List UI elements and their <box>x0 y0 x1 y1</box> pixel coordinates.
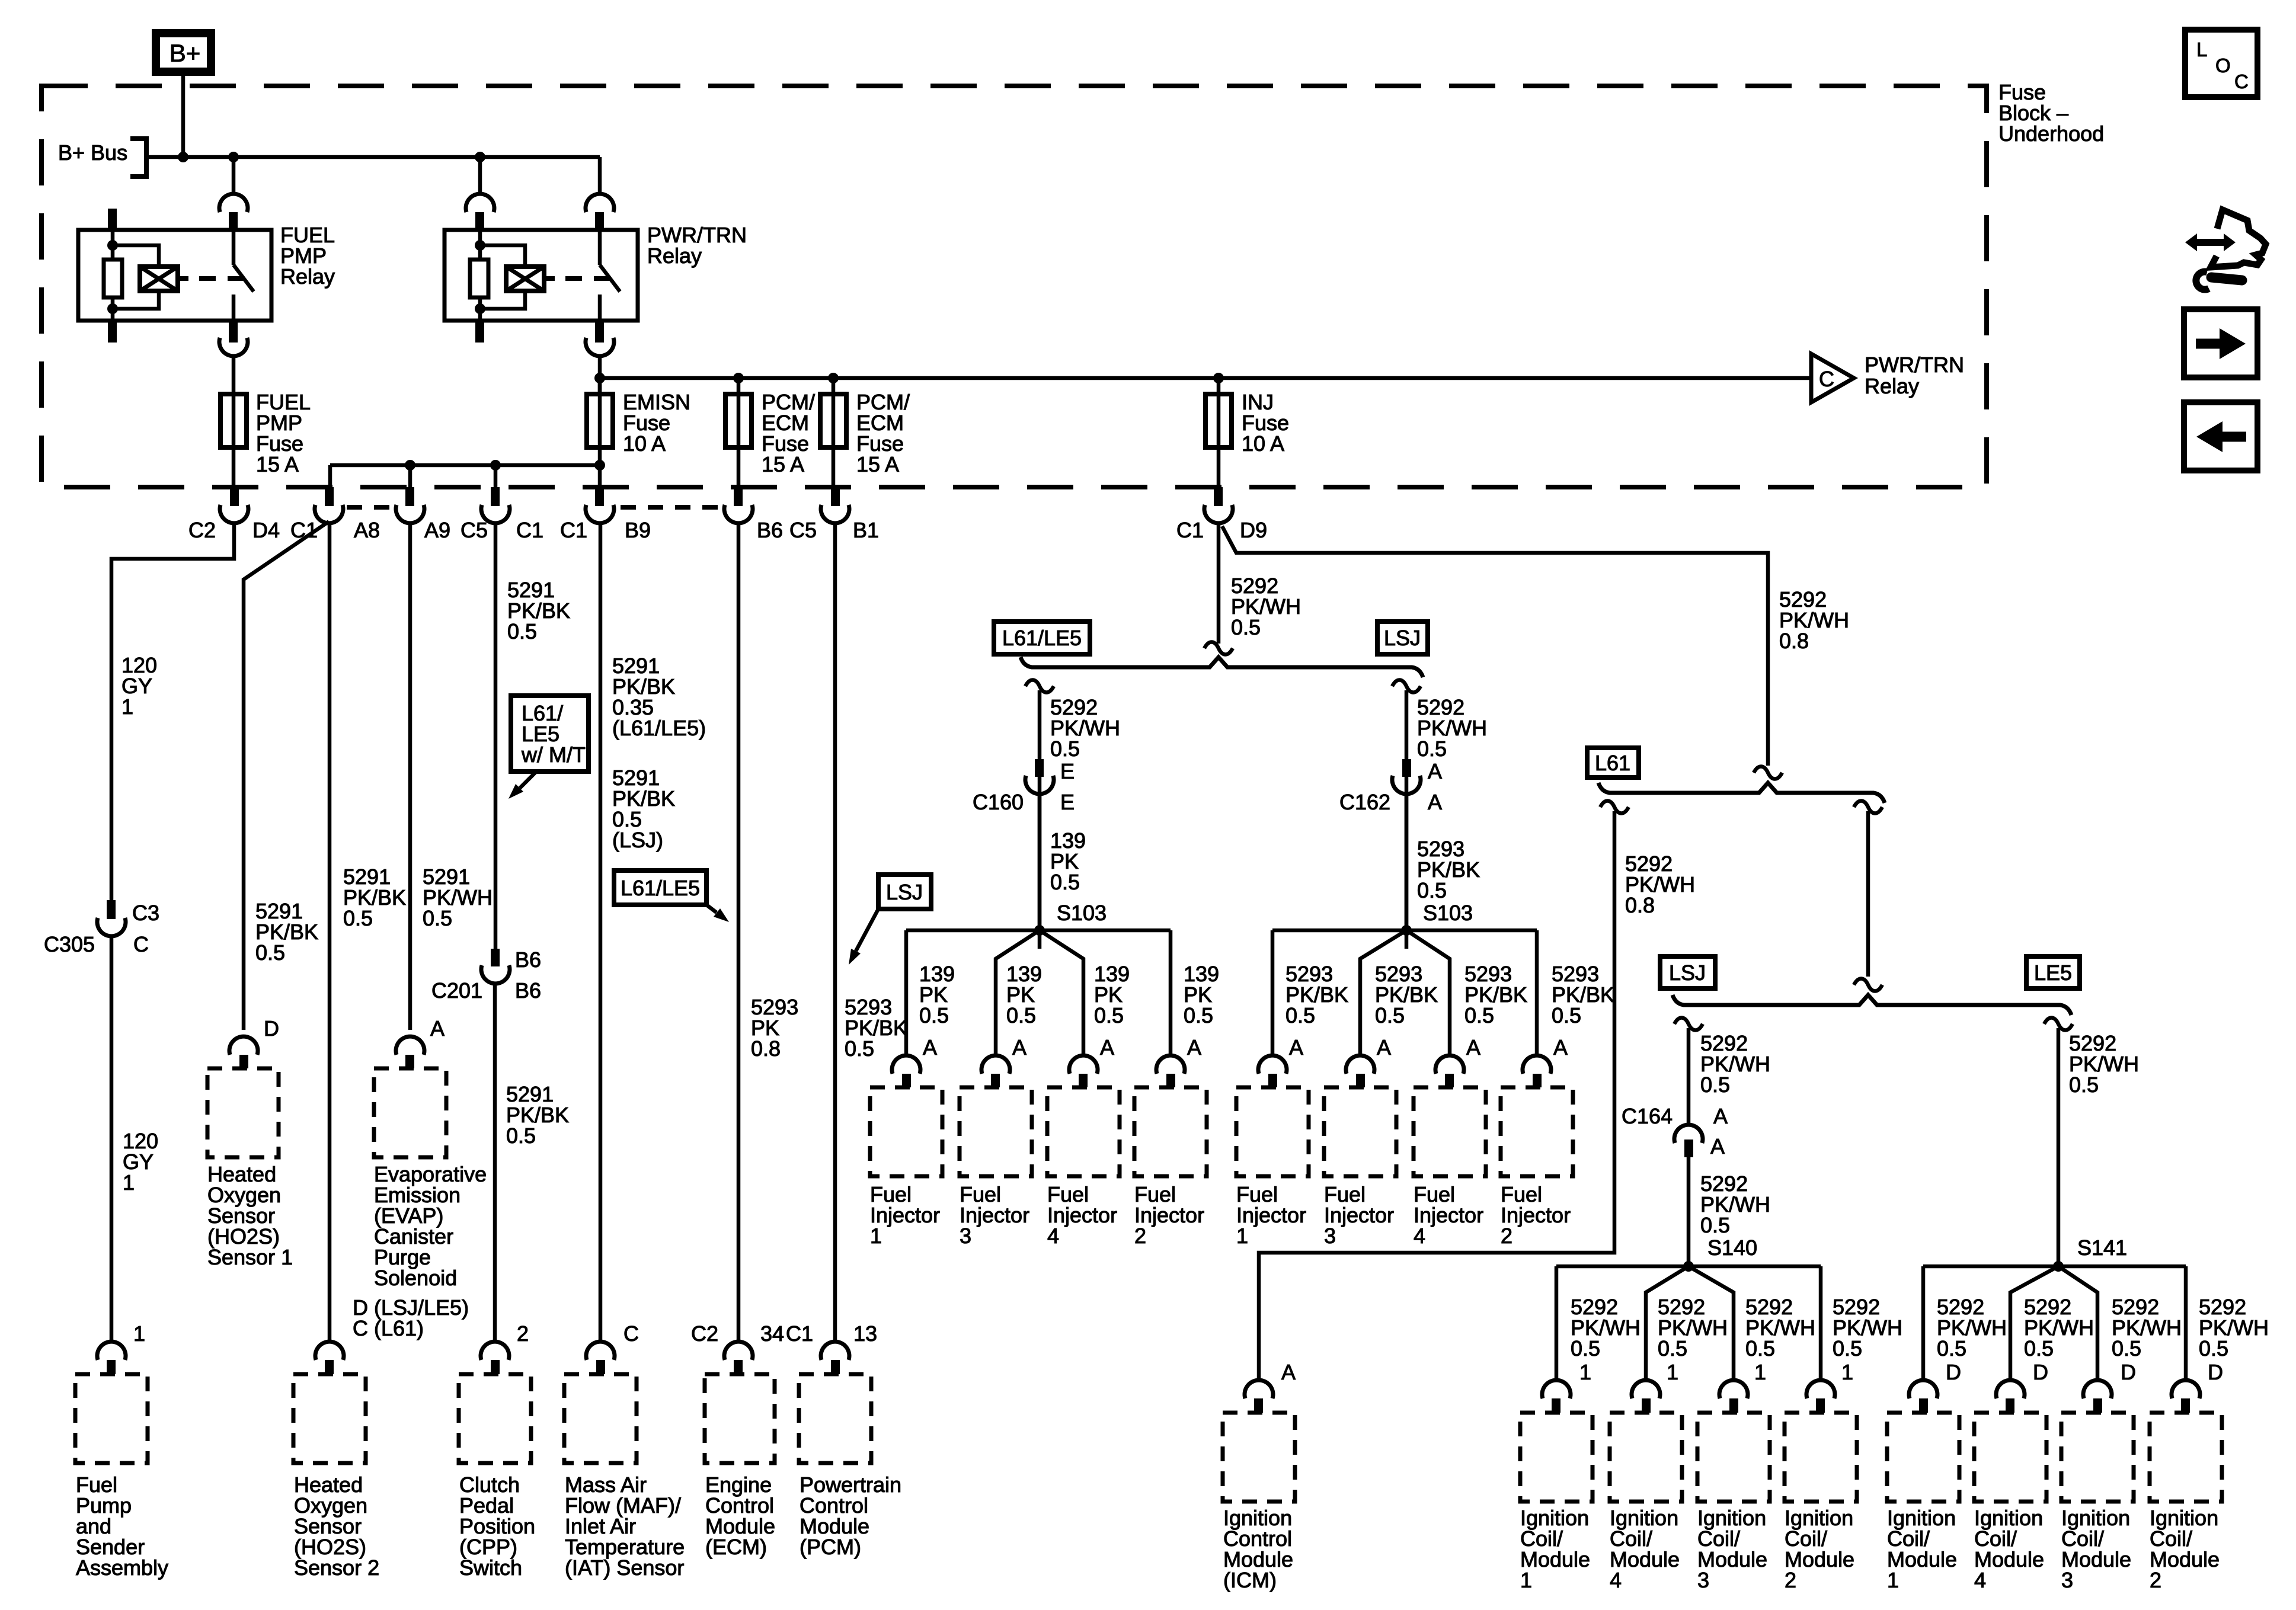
FUEL PMP Relay coil pin top stub <box>108 209 117 231</box>
FUEL PMP Relay coil pin bottom stub <box>108 321 117 343</box>
svg-text:5292 PK/WH 0.5: 5292 PK/WH 0.5 <box>1700 1172 1776 1237</box>
connector ECM pins C2/34 <box>724 1342 753 1360</box>
svg-text:B6: B6 <box>515 978 541 1003</box>
svg-text:A: A <box>1281 1360 1296 1384</box>
wire B1 to PCM <box>833 524 837 1341</box>
svg-text:LSJ: LSJ <box>1669 961 1706 985</box>
L61/LE5 w/ M/T callout box <box>511 696 589 772</box>
svg-text:5292 PK/WH 0.5: 5292 PK/WH 0.5 <box>1417 695 1493 761</box>
svg-text:L61/LE5: L61/LE5 <box>1002 626 1082 650</box>
svg-text:A: A <box>1428 759 1442 783</box>
svg-text:L61/LE5: L61/LE5 <box>621 876 700 900</box>
connector ignition coil 3 pin 1 <box>1719 1380 1748 1398</box>
wire break squiggle above LSJ/LE5 split <box>1854 978 1882 991</box>
svg-text:5291 PK/BK 0.5: 5291 PK/BK 0.5 <box>255 899 324 965</box>
svg-text:A8: A8 <box>354 518 380 542</box>
svg-text:1: 1 <box>133 1321 145 1346</box>
svg-text:5293 PK/BK 0.5: 5293 PK/BK 0.5 <box>1464 962 1533 1028</box>
PWR/TRN Relay switch <box>598 230 602 265</box>
FUEL PMP Relay box <box>78 230 271 321</box>
wire PCM/ECM fuse 2 to connector B1 <box>832 447 836 487</box>
connector fuel injector 4 pin A <box>1435 1055 1464 1074</box>
L61 option split brace <box>1598 783 1885 803</box>
Heated Oxygen Sensor HO2S Sensor 1 box <box>207 1068 279 1157</box>
svg-text:D: D <box>1946 1360 1961 1384</box>
vehicle location icon <box>2211 210 2266 267</box>
connector PCM pins C1/13 <box>821 1342 849 1360</box>
svg-text:C2: C2 <box>188 518 216 542</box>
splice S140 wires to coils (LSJ) <box>1556 1265 1821 1269</box>
connector C5/C1 at fuse block <box>491 487 500 506</box>
connector ignition coil 4 pin D <box>1996 1380 2025 1398</box>
svg-text:C1: C1 <box>1176 518 1204 542</box>
Ignition Coil/Module 2 box <box>1785 1413 1857 1502</box>
connector CPP pin 2 <box>481 1342 509 1360</box>
connector C1/D9 at fuse block <box>1214 487 1223 506</box>
wire split to C160 <box>1038 690 1042 949</box>
connector PWR/TRN relay coil top <box>466 194 494 212</box>
B+ bus wire <box>146 155 600 159</box>
svg-text:Ignition Control Module (ICM): Ignition Control Module (ICM) <box>1223 1506 1299 1592</box>
junction dot ign bus / PCM-ECM fuse 1 <box>733 373 744 383</box>
PWR/TRN Relay box <box>445 230 638 321</box>
wire C160 to splice S103 <box>1038 795 1042 930</box>
svg-text:FUEL PMP Fuse 15 A: FUEL PMP Fuse 15 A <box>256 390 316 476</box>
svg-text:Ignition Coil/ Module 1: Ignition Coil/ Module 1 <box>1520 1506 1596 1592</box>
wire ign bus into EMISN fuse <box>598 378 602 394</box>
splice S103 wires to injectors 1-4 (LSJ) <box>1272 929 1537 933</box>
svg-text:5292 PK/WH 0.5: 5292 PK/WH 0.5 <box>2199 1295 2275 1361</box>
svg-text:LSJ: LSJ <box>1384 626 1421 650</box>
L61/LE5 w/ M/T callout arrow <box>520 772 536 788</box>
wire C162 to splice S103 <box>1405 795 1409 930</box>
svg-text:PCM/ ECM Fuse 15 A: PCM/ ECM Fuse 15 A <box>856 390 916 476</box>
svg-text:A: A <box>1428 790 1442 814</box>
svg-text:5292 PK/WH 0.5: 5292 PK/WH 0.5 <box>2024 1295 2100 1361</box>
svg-text:D: D <box>264 1016 279 1041</box>
connector fuel injector 3 pin A <box>981 1055 1010 1074</box>
wire L61 branch to LSJ/LE5 split <box>1866 811 1870 977</box>
wire bus to PWR/TRN relay switch <box>598 157 602 193</box>
wire B+ to bus <box>181 76 186 157</box>
forward arrow box <box>2184 309 2257 377</box>
junction dot bus/pwr-trn relay coil <box>475 152 485 162</box>
svg-text:C162: C162 <box>1339 790 1390 814</box>
svg-text:Heated Oxygen Sensor (HO2S) Se: Heated Oxygen Sensor (HO2S) Sensor 2 <box>294 1473 379 1580</box>
svg-text:1: 1 <box>1579 1360 1591 1384</box>
svg-text:L: L <box>2196 39 2207 60</box>
Engine Control Module ECM box <box>705 1374 775 1463</box>
connector fuel injector 1 pin A <box>1258 1055 1287 1074</box>
svg-text:1: 1 <box>1841 1360 1853 1384</box>
Ignition Coil/Module 3 box <box>1697 1413 1770 1502</box>
svg-text:34: 34 <box>760 1321 784 1346</box>
wire INJ fuse to connector D9 <box>1217 447 1221 487</box>
svg-text:5291 PK/BK 0.35 (L61/LE5): 5291 PK/BK 0.35 (L61/LE5) <box>612 654 706 740</box>
svg-text:5293 PK/BK 0.5: 5293 PK/BK 0.5 <box>845 995 913 1061</box>
connector PWR/TRN relay switch bottom <box>595 321 604 343</box>
svg-text:B1: B1 <box>853 518 879 542</box>
svg-text:LE5: LE5 <box>2034 961 2072 985</box>
connector fuel pump pin 1 <box>97 1342 126 1360</box>
Fuel Injector 3 box <box>1324 1087 1396 1176</box>
wire ign bus into INJ fuse <box>1217 378 1221 394</box>
svg-text:PWR/TRN Relay: PWR/TRN Relay <box>647 223 753 268</box>
splice S103 (L61/LE5) <box>1034 925 1045 936</box>
connector ignition coil 3 pin D <box>2083 1380 2112 1398</box>
svg-text:A: A <box>1289 1035 1303 1060</box>
svg-text:Ignition Coil/ Module 4: Ignition Coil/ Module 4 <box>1610 1506 1686 1592</box>
wire PCM/ECM fuse 1 to connector B6 <box>737 447 741 487</box>
connector B6 at fuse block <box>734 487 743 506</box>
Fuel Injector 4 box <box>1414 1087 1486 1176</box>
svg-text:2: 2 <box>517 1321 529 1346</box>
svg-text:Fuel Injector 1: Fuel Injector 1 <box>1236 1182 1312 1248</box>
injector engine-option split brace <box>1021 657 1423 677</box>
FUEL PMP Relay coil-switch dashed link <box>178 276 244 281</box>
connector ignition coil 2 pin 1 <box>1806 1380 1835 1398</box>
connector ignition coil 1 pin 1 <box>1542 1380 1571 1398</box>
connector ICM pin A <box>1245 1380 1273 1398</box>
Fuel Injector 4 box <box>1047 1087 1120 1176</box>
svg-text:5293 PK/BK 0.5: 5293 PK/BK 0.5 <box>1417 837 1486 902</box>
connector HO2S2 pin <box>315 1342 344 1360</box>
wire L61 branch to ICM <box>1259 811 1614 1379</box>
svg-text:Ignition Coil/ Module 2: Ignition Coil/ Module 2 <box>1785 1506 1860 1592</box>
splice S103 (LSJ) <box>1401 925 1412 936</box>
svg-text:E: E <box>1060 790 1075 814</box>
svg-text:C: C <box>133 932 149 956</box>
svg-text:D: D <box>2121 1360 2136 1384</box>
svg-text:INJ Fuse 10 A: INJ Fuse 10 A <box>1242 390 1295 456</box>
svg-text:B6: B6 <box>515 948 541 972</box>
svg-text:120 GY 1: 120 GY 1 <box>121 653 163 719</box>
branch squiggle LSJ injectors <box>1392 680 1421 692</box>
wire relay to FUEL PMP fuse <box>232 357 236 394</box>
svg-text:1: 1 <box>1667 1360 1678 1384</box>
connector ignition coil 2 pin D <box>2172 1380 2200 1398</box>
svg-text:Ignition Coil/ Module 3: Ignition Coil/ Module 3 <box>2061 1506 2137 1592</box>
LSJ callout arrow near PCM wire <box>856 909 878 951</box>
FUEL PMP Relay resistor <box>104 260 122 297</box>
Ignition Coil/Module 3 box <box>2061 1413 2134 1502</box>
wire split to C162 <box>1405 690 1409 949</box>
connector PWR/TRN relay switch top <box>586 194 614 212</box>
Ignition Coil/Module 4 box <box>1610 1413 1682 1502</box>
branch squiggle S141 feed <box>2044 1017 2073 1030</box>
connector HO2S1 pin D <box>229 1036 258 1055</box>
splice S140 <box>1683 1261 1694 1272</box>
wire C164 to splice S140 <box>1687 1157 1691 1266</box>
svg-text:Powertrain Control Module (PCM: Powertrain Control Module (PCM) <box>800 1473 907 1559</box>
svg-text:Ignition Coil/ Module 1: Ignition Coil/ Module 1 <box>1887 1506 1963 1592</box>
junction dot ign bus / INJ fuse <box>1213 373 1224 383</box>
wire A9 to EVAP solenoid <box>408 524 412 1030</box>
splice S103 wires to injectors 1-4 (L61/LE5) <box>906 929 1171 933</box>
svg-text:C160: C160 <box>973 790 1024 814</box>
svg-text:5292 PK/WH 0.5: 5292 PK/WH 0.5 <box>1231 574 1307 639</box>
svg-text:L61: L61 <box>1595 751 1630 775</box>
svg-text:Engine Control Module (ECM): Engine Control Module (ECM) <box>705 1473 781 1559</box>
Fuel Injector 3 box <box>960 1087 1032 1176</box>
wire bus to PWR/TRN relay coil <box>478 157 482 193</box>
PWR/TRN Relay coil-switch dashed link <box>544 276 610 281</box>
svg-text:B+: B+ <box>170 39 201 67</box>
svg-text:D: D <box>2208 1360 2223 1384</box>
connector link dashes A8-A9 <box>347 505 395 510</box>
wire relay switch to ignition bus <box>598 357 602 394</box>
svg-text:C1: C1 <box>516 518 543 542</box>
Ignition Coil/Module 4 box <box>1974 1413 2046 1502</box>
svg-text:139 PK 0.5: 139 PK 0.5 <box>919 962 961 1028</box>
svg-text:C305: C305 <box>44 932 95 956</box>
svg-text:A: A <box>1187 1035 1201 1060</box>
in-line connector C162 <box>1402 759 1411 777</box>
svg-text:5291 PK/WH 0.5: 5291 PK/WH 0.5 <box>423 865 498 930</box>
PWR/TRN Relay coil pin bottom stub <box>475 321 484 343</box>
PCM/ECM Fuse 15 A (2) <box>820 394 846 447</box>
svg-text:S141: S141 <box>2077 1235 2127 1260</box>
branch squiggle LSJ/LE5 coils <box>1854 801 1882 813</box>
svg-text:1: 1 <box>1754 1360 1766 1384</box>
svg-text:5291 PK/BK 0.5: 5291 PK/BK 0.5 <box>506 1082 575 1148</box>
wire C2 to C305 <box>111 524 234 900</box>
svg-text:A: A <box>1713 1104 1728 1128</box>
svg-text:Ignition Coil/ Module 4: Ignition Coil/ Module 4 <box>1974 1506 2050 1592</box>
L61 option box <box>1587 748 1639 777</box>
splice S141 wires to coils (LE5) <box>1923 1265 2186 1269</box>
svg-text:5292 PK/WH 0.5: 5292 PK/WH 0.5 <box>1700 1031 1776 1097</box>
in-line connector C164 <box>1674 1125 1703 1143</box>
wire C201 to CPP switch <box>493 984 497 1341</box>
svg-text:A: A <box>923 1035 937 1060</box>
svg-text:139 PK 0.5: 139 PK 0.5 <box>1184 962 1225 1028</box>
svg-text:C1: C1 <box>786 1321 813 1346</box>
connector ignition coil 1 pin D <box>1909 1380 1937 1398</box>
svg-text:Ignition Coil/ Module 3: Ignition Coil/ Module 3 <box>1697 1506 1773 1592</box>
FUEL PMP Fuse 15 A <box>220 394 247 447</box>
svg-text:C3: C3 <box>132 901 159 925</box>
svg-text:C201: C201 <box>431 978 482 1003</box>
junction dot ign bus / EMISN fuse <box>594 373 605 383</box>
Powertrain Control Module PCM box <box>799 1374 871 1463</box>
FUEL PMP Relay coil branch wires <box>113 245 159 267</box>
in-line connector C160 <box>1035 759 1044 777</box>
Heated Oxygen Sensor HO2S Sensor 2 box <box>293 1374 366 1463</box>
svg-text:LSJ: LSJ <box>886 880 923 904</box>
connector A9 at fuse block <box>405 487 414 506</box>
svg-text:A: A <box>1012 1035 1027 1060</box>
svg-text:Fuel Injector 2: Fuel Injector 2 <box>1501 1182 1576 1248</box>
svg-text:Clutch Pedal Position (CPP) Sw: Clutch Pedal Position (CPP) Switch <box>459 1473 541 1580</box>
svg-text:5292 PK/WH 0.5: 5292 PK/WH 0.5 <box>1745 1295 1821 1361</box>
wire C1 to HO2S sensor 1 <box>244 521 329 1030</box>
svg-text:A: A <box>1100 1035 1114 1060</box>
svg-text:D4: D4 <box>252 518 280 542</box>
svg-text:Fuel Injector 3: Fuel Injector 3 <box>960 1182 1035 1248</box>
svg-text:B6: B6 <box>757 518 783 542</box>
svg-text:5292 PK/WH 0.8: 5292 PK/WH 0.8 <box>1625 852 1701 917</box>
wire ign bus into PCM-ECM fuse 2 <box>832 378 836 394</box>
svg-text:5291 PK/BK 0.5 (LSJ): 5291 PK/BK 0.5 (LSJ) <box>612 766 681 852</box>
svg-text:5291 PK/BK 0.5: 5291 PK/BK 0.5 <box>507 578 576 644</box>
svg-text:PWR/TRN Relay: PWR/TRN Relay <box>1865 353 1970 398</box>
wire break squiggle above L61 split <box>1754 766 1782 779</box>
wire LSJ branch to C164 <box>1687 1028 1691 1124</box>
svg-text:5293 PK 0.8: 5293 PK 0.8 <box>751 995 804 1061</box>
wire EMISN fuse to sub-bus <box>598 447 602 487</box>
L61/LE5 callout arrow near ECM wire <box>706 905 717 913</box>
back arrow box <box>2184 402 2257 470</box>
junction dot sub-bus C5 <box>490 460 501 470</box>
EMISN sub-bus wire <box>330 463 600 468</box>
in-line connector C201 <box>491 949 500 966</box>
svg-text:A: A <box>1377 1035 1391 1060</box>
LSJ callout box near PCM wire <box>878 875 931 909</box>
svg-text:Evaporative Emission (EVAP) Ca: Evaporative Emission (EVAP) Canister Pur… <box>374 1162 493 1290</box>
branch squiggle L61/LE5 injectors <box>1025 680 1054 692</box>
svg-text:E: E <box>1060 759 1075 783</box>
svg-text:Fuel Injector 4: Fuel Injector 4 <box>1047 1182 1123 1248</box>
EMISN Fuse 10 A <box>587 394 613 447</box>
junction dot ign bus / PCM-ECM fuse 2 <box>828 373 839 383</box>
svg-text:Mass Air Flow (MAF)/ Inlet Air: Mass Air Flow (MAF)/ Inlet Air Temperatu… <box>565 1473 690 1580</box>
fuse block underhood dashed border <box>41 86 1987 487</box>
FUEL PMP Relay switch <box>232 230 236 265</box>
wire break squiggle above injector split <box>1204 642 1233 654</box>
L61/LE5 option box (injectors) <box>994 622 1090 654</box>
svg-text:D: D <box>2033 1360 2048 1384</box>
wire FUEL PMP fuse to connector C2 <box>232 447 236 487</box>
connector fuel pump relay switch top <box>219 194 248 212</box>
svg-text:A: A <box>430 1016 445 1041</box>
svg-text:C5: C5 <box>789 518 817 542</box>
svg-text:120 GY 1: 120 GY 1 <box>123 1129 164 1195</box>
wire ign bus into PCM-ECM fuse 1 <box>737 378 741 394</box>
wire D9 branch to ignition coils feed <box>1222 526 1768 766</box>
Ignition Coil/Module 1 box <box>1520 1413 1593 1502</box>
wire C305 to fuel pump <box>110 938 114 1341</box>
svg-text:EMISN Fuse 10 A: EMISN Fuse 10 A <box>623 390 696 456</box>
PCM/ECM Fuse 15 A (1) <box>725 394 752 447</box>
connector C5/B1 at fuse block <box>831 487 840 506</box>
svg-text:5293 PK/BK 0.5: 5293 PK/BK 0.5 <box>1285 962 1354 1028</box>
connector fuel injector 1 pin A <box>892 1055 920 1074</box>
svg-text:C2: C2 <box>691 1321 718 1346</box>
connector MAF pin C <box>586 1342 615 1360</box>
svg-text:C: C <box>623 1321 639 1346</box>
wire A8 to HO2S sensor 2 <box>328 524 332 1341</box>
svg-text:5292 PK/WH 0.5: 5292 PK/WH 0.5 <box>2069 1031 2145 1097</box>
svg-text:5292 PK/WH 0.5: 5292 PK/WH 0.5 <box>2112 1295 2188 1361</box>
svg-text:S103: S103 <box>1423 901 1473 925</box>
svg-text:C164: C164 <box>1622 1104 1673 1128</box>
LOC reference box <box>2185 30 2257 97</box>
svg-text:A: A <box>1553 1035 1568 1060</box>
junction dot bus/fuel pump relay <box>228 152 239 162</box>
Fuel Injector 2 box <box>1501 1087 1573 1176</box>
LSJ option box (injectors) <box>1377 622 1428 654</box>
connector C2/D4 at fuse block <box>230 487 239 506</box>
wire B9 to MAF/IAT sensor <box>599 524 603 1341</box>
Evaporative Emission EVAP Canister Purge Solenoid box <box>374 1068 446 1157</box>
svg-text:PCM/ ECM Fuse 15 A: PCM/ ECM Fuse 15 A <box>762 390 821 476</box>
connector EVAP pin A <box>396 1036 424 1055</box>
Ignition Control Module ICM box <box>1223 1413 1295 1502</box>
connector C1/A8 at fuse block <box>325 487 334 506</box>
svg-text:139 PK 0.5: 139 PK 0.5 <box>1094 962 1136 1028</box>
Ignition Coil/Module 1 box <box>1887 1413 1959 1502</box>
svg-text:5292 PK/WH 0.5: 5292 PK/WH 0.5 <box>1937 1295 2013 1361</box>
connector ignition coil 4 pin 1 <box>1632 1380 1660 1398</box>
svg-text:Fuel Injector 1: Fuel Injector 1 <box>870 1182 946 1248</box>
svg-text:S140: S140 <box>1707 1235 1757 1260</box>
svg-text:C5: C5 <box>461 518 488 542</box>
ignition feed bus wire <box>600 376 1811 380</box>
svg-text:A9: A9 <box>424 518 450 542</box>
PWR/TRN Relay coil pin line <box>478 230 482 321</box>
wire sub-bus into connector A8 <box>408 465 412 487</box>
svg-text:139 PK 0.5: 139 PK 0.5 <box>1006 962 1048 1028</box>
C triangle out to PWR/TRN Relay <box>1811 354 1854 402</box>
svg-text:D (LSJ/LE5) C (L61): D (LSJ/LE5) C (L61) <box>353 1295 475 1340</box>
branch squiggle S140 feed <box>1674 1017 1703 1030</box>
svg-text:L61/ LE5 w/ M/T: L61/ LE5 w/ M/T <box>521 701 586 767</box>
wire C5 to C201 <box>494 524 498 949</box>
junction dot bus/B+ <box>178 152 188 162</box>
connector FUEL PMP relay switch bottom <box>229 321 238 343</box>
svg-text:O: O <box>2215 55 2231 76</box>
svg-text:A: A <box>1466 1035 1480 1060</box>
svg-text:A: A <box>1710 1134 1725 1158</box>
svg-text:C: C <box>2234 71 2249 92</box>
svg-text:D9: D9 <box>1240 518 1267 542</box>
svg-text:5293 PK/BK 0.5: 5293 PK/BK 0.5 <box>1375 962 1444 1028</box>
svg-text:Fuel Injector 2: Fuel Injector 2 <box>1134 1182 1210 1248</box>
svg-text:S103: S103 <box>1057 901 1107 925</box>
svg-text:Fuse Block – Underhood: Fuse Block – Underhood <box>1998 80 2104 146</box>
B+ battery feed box <box>156 33 211 72</box>
in-line connector C305 <box>107 900 116 919</box>
LSJ/LE5 option split brace <box>1673 995 2071 1015</box>
PWR/TRN Relay coil junction dots <box>475 240 485 251</box>
connector fuel injector 2 pin A <box>1156 1055 1185 1074</box>
B+ Bus bracket <box>130 139 146 177</box>
PWR/TRN Relay resistor <box>470 260 488 297</box>
svg-text:5292 PK/WH 0.5: 5292 PK/WH 0.5 <box>1658 1295 1734 1361</box>
svg-text:5292 PK/WH 0.8: 5292 PK/WH 0.8 <box>1779 587 1855 653</box>
LSJ option box (coils) <box>1660 956 1715 988</box>
L61/LE5 callout box near ECM wire <box>614 870 706 905</box>
Fuel Injector 2 box <box>1134 1087 1207 1176</box>
Fuel Pump and Sender Assembly box <box>75 1374 148 1463</box>
connector fuel injector 3 pin A <box>1346 1055 1374 1074</box>
splice S141 <box>2053 1261 2064 1272</box>
svg-text:5292 PK/WH 0.5: 5292 PK/WH 0.5 <box>1571 1295 1646 1361</box>
PWR/TRN Relay coil <box>506 267 544 291</box>
wire sub-bus into connector C5 <box>494 465 498 487</box>
svg-text:Fuel Pump and Sender Assembly: Fuel Pump and Sender Assembly <box>76 1473 168 1580</box>
svg-text:FUEL PMP Relay: FUEL PMP Relay <box>280 223 340 289</box>
PWR/TRN Relay coil branch wires <box>480 245 525 267</box>
svg-text:5292 PK/WH 0.5: 5292 PK/WH 0.5 <box>1833 1295 1908 1361</box>
INJ Fuse 10 A <box>1205 394 1232 447</box>
FUEL PMP Relay coil pin line <box>111 230 115 321</box>
svg-text:Ignition Coil/ Module 2: Ignition Coil/ Module 2 <box>2150 1506 2225 1592</box>
svg-text:5291 PK/BK 0.5: 5291 PK/BK 0.5 <box>343 865 412 930</box>
Fuel Injector 1 box <box>870 1087 942 1176</box>
svg-text:B9: B9 <box>625 518 651 542</box>
